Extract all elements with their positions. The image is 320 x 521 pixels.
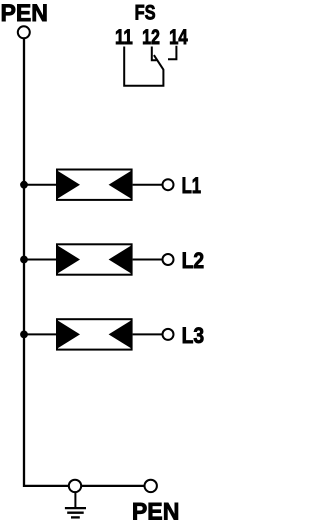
- svg-text:12: 12: [142, 25, 160, 49]
- svg-text:FS: FS: [135, 1, 156, 25]
- svg-text:PEN: PEN: [132, 499, 180, 521]
- svg-text:L2: L2: [182, 248, 204, 273]
- svg-text:11: 11: [115, 25, 133, 49]
- svg-text:L3: L3: [182, 323, 204, 348]
- svg-text:14: 14: [169, 25, 188, 49]
- svg-text:L1: L1: [182, 173, 202, 198]
- svg-text:PEN: PEN: [1, 0, 49, 27]
